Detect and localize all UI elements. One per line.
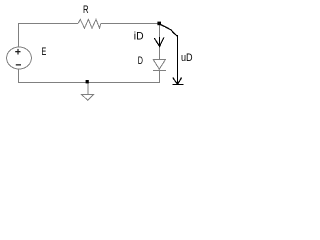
- svg-text:D: D: [138, 55, 143, 67]
- svg-text:uD: uD: [181, 52, 193, 64]
- svg-text:iD: iD: [134, 31, 144, 43]
- svg-text:E: E: [42, 46, 47, 58]
- svg-text:R: R: [83, 4, 89, 16]
